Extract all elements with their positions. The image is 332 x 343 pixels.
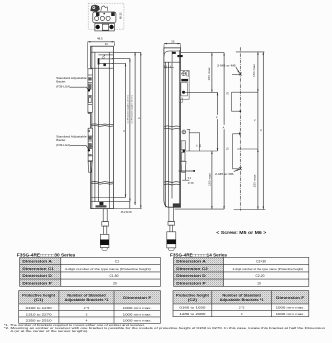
svg-text:2-M5 or M6: 2-M5 or M6 [215,172,234,176]
svg-text:Protective height: Protective height [22,294,56,298]
lower bracket side view [179,130,196,173]
side view cap [164,51,181,62]
upper bracket front (F39-LGA) [88,69,92,114]
svg-text:4-digit number of the type nam: 4-digit number of the type name (Protect… [233,267,304,271]
front view dimension line C1 outer [134,52,136,205]
svg-text:Protective height: Protective height [176,294,210,298]
lower bracket bolt [88,149,90,151]
svg-text:26: 26 [171,39,175,43]
svg-text:D: D [123,130,126,132]
side view dim F [217,92,219,151]
svg-text:C1-50: C1-50 [110,274,119,278]
svg-text:0190 to 1230: 0190 to 1230 [26,306,52,310]
side view bottom dark block [173,203,181,207]
side view small cap dims [182,172,194,185]
svg-text:C1: C1 [115,260,119,264]
svg-text:Adjustable Brackets *1: Adjustable Brackets *1 [220,298,264,302]
svg-text:40.35: 40.35 [126,211,133,214]
side view M12 connector [167,232,176,251]
svg-text:66.35: 66.35 [119,12,123,19]
svg-text:150 max: 150 max [253,173,256,187]
top view lever outline [101,6,108,12]
front view body outline [91,46,114,208]
front view break band lower [91,182,114,185]
screw dim 150max top [257,52,259,92]
top view bracket hatch [91,5,100,12]
svg-text:C2-20: C2-20 [256,274,265,278]
lower bracket front (F39-LGA) [88,128,93,172]
svg-text:A (or at the center of the sen: A (or at the center of the sensor length… [11,329,89,333]
svg-text:Dimension P: Dimension P [22,282,52,286]
screw dim F [257,92,259,149]
side view dim 150max top [211,53,213,93]
svg-text:Adjustable Brackets *1: Adjustable Brackets *1 [65,298,109,302]
front view dimension line C1 inner [129,58,131,201]
svg-text:20: 20 [113,282,117,286]
front view dimension line A [140,52,142,208]
svg-text:Standard Adjustable: Standard Adjustable [56,76,87,80]
front view bottom cap [91,198,114,202]
svg-text:Standard Adjustable: Standard Adjustable [56,135,87,139]
side view bracket small dims [187,129,200,151]
bracket table 30 [19,291,161,324]
svg-text:Dimension D: Dimension D [22,274,52,278]
screw dim 150max bottom [257,149,259,210]
upper bracket leader [70,87,89,90]
svg-text:10: 10 [257,282,261,286]
front view break band upper [91,124,114,127]
front view width dimension 48.5 [87,37,114,69]
dims table 14 [174,257,309,286]
svg-text:150 max: 150 max [208,172,211,186]
screw mount centerline [239,47,241,210]
front view right leaders [112,52,142,208]
svg-text:4-digit number of the type nam: 4-digit number of the type name (Protect… [65,267,151,271]
svg-text:Bracket: Bracket [56,80,65,84]
front view dimension line D [125,63,127,197]
screw mount top end line [236,51,265,53]
screw dot mid2 [239,132,241,136]
svg-text:3: 3 [86,312,88,316]
svg-text:150 max: 150 max [208,66,211,80]
top view body cross-section [93,12,116,23]
screw mount bottom end line [234,209,266,211]
top view bottom bracket plate [95,23,114,31]
svg-text:1280 to 2080: 1280 to 2080 [179,312,205,316]
svg-text:1000 mm max.: 1000 mm max. [276,312,305,316]
svg-text:2-M5 or M6: 2-M5 or M6 [217,64,236,68]
svg-text:1000 mm max.: 1000 mm max. [123,319,152,323]
svg-text:1000 mm max.: 1000 mm max. [276,306,305,310]
svg-text:(C2): (C2) [188,298,197,302]
top view phantom outline [88,3,124,29]
svg-text:1000 mm max.: 1000 mm max. [123,312,152,316]
front view inner vertical lines [92,46,109,208]
svg-text:Number of Standard: Number of Standard [222,294,261,298]
svg-text:2 *2: 2 *2 [239,306,245,310]
front view M12 connector [100,234,109,250]
svg-text:Dimension F: Dimension F [123,296,151,300]
svg-text:150 max: 150 max [253,63,256,77]
svg-text:48.5: 48.5 [97,37,103,41]
svg-text:Dimension D: Dimension D [176,274,206,278]
svg-text:Dimension P: Dimension P [176,282,206,286]
svg-text:Bracket: Bracket [56,138,65,142]
screw dot mid1 [239,109,241,113]
front view top indicator marks [98,55,106,67]
side view dim 150max bottom [211,151,213,209]
front view cap lines [91,52,114,68]
screw pitch lines [232,75,258,169]
svg-text:4: 4 [86,319,88,323]
svg-text:1310 to 2270: 1310 to 2270 [26,312,52,316]
svg-text:Number of Standard: Number of Standard [67,294,106,298]
svg-text:F3SG-4RE□□□□□14 Series: F3SG-4RE□□□□□14 Series [170,253,228,258]
svg-text:47.35: 47.35 [188,183,194,185]
side view cable stub [168,207,175,232]
side view body outline [164,48,181,207]
svg-text:(C1): (C1) [34,298,43,302]
top view clamp blocks [96,12,99,16]
screw X bottom [239,167,242,170]
bracket table 14 [173,291,309,317]
svg-text:3: 3 [241,312,243,316]
front view bottom indicator marks [96,202,107,208]
dims table 30 [20,257,161,286]
screw X top [239,73,242,76]
svg-text:F3SG-4RE□□□□□30 Series: F3SG-4RE□□□□□30 Series [17,252,76,257]
upper bracket label [56,76,87,89]
svg-text:2350 to 2510: 2350 to 2510 [26,319,52,323]
side view break band lower [164,182,181,186]
svg-text:< Screw: M5 or M6 >: < Screw: M5 or M6 > [216,230,266,235]
svg-text:C2+30: C2+30 [256,260,266,264]
lower bracket label [56,135,87,147]
front view cable stub [102,209,109,235]
upper bracket side view [179,70,189,102]
lower bracket leader [70,146,89,150]
side view dim A [223,53,225,210]
side view break band upper [164,126,181,130]
svg-text:Dimension C2: Dimension C2 [176,267,208,271]
svg-text:2 *2: 2 *2 [84,306,90,310]
svg-text:(F39-LGA): (F39-LGA) [56,85,70,89]
svg-text:C1 (Protective height to 14 mm: C1 (Protective height to 14 mm) [127,95,130,123]
svg-text:Dimension C1: Dimension C1 [22,267,54,271]
svg-text:Dimension A: Dimension A [22,260,52,264]
svg-text:C1 (Protective height to 30 mm: C1 (Protective height to 30 mm) [130,95,133,123]
side view width dimension 26 [164,39,181,47]
svg-text:(F39-LGA): (F39-LGA) [56,143,70,147]
svg-text:Dimension F: Dimension F [276,296,304,300]
side view right leaders [175,53,225,210]
svg-text:0160 to 1030: 0160 to 1030 [179,306,205,310]
side view inner lines [166,50,180,207]
svg-text:Dimension A: Dimension A [176,260,206,264]
svg-text:1000 mm max.: 1000 mm max. [123,306,152,310]
upper bracket bolt [88,89,90,91]
screw dim A [262,52,264,210]
